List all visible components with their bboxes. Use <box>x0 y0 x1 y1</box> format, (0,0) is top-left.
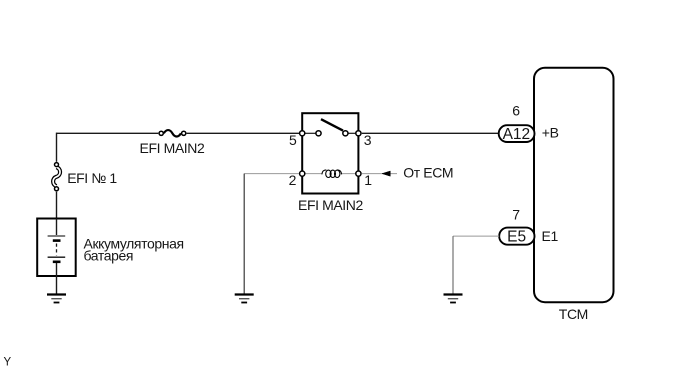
svg-text:TCM: TCM <box>559 306 588 322</box>
svg-text:EFI № 1: EFI № 1 <box>67 170 117 186</box>
svg-text:2: 2 <box>289 172 297 188</box>
svg-text:EFI MAIN2: EFI MAIN2 <box>140 140 205 156</box>
relay pin 3 circle <box>356 131 361 136</box>
relay pin 2 circle <box>300 171 305 176</box>
relay switch wire pin5 to inner contact <box>302 132 316 134</box>
relay switch inner contact circle left <box>316 131 321 136</box>
battery cell 2 long plate <box>48 256 66 258</box>
relay box EFI MAIN2 <box>302 113 358 193</box>
wire pin2 ground vertical <box>243 174 245 294</box>
wire E5 ground vertical <box>452 236 454 293</box>
fuse EFI MAIN2 wavy element <box>164 130 181 136</box>
wire fuse EFI MAIN2 to relay pin 5 <box>187 132 300 134</box>
svg-text:1: 1 <box>364 172 372 188</box>
svg-text:батарея: батарея <box>84 248 134 264</box>
svg-text:E1: E1 <box>542 228 559 244</box>
fuse EFI MAIN2 right terminal circle <box>182 131 186 135</box>
battery internal wire top <box>56 219 58 236</box>
relay pin 1 circle <box>356 171 361 176</box>
relay switch inner contact circle right <box>343 131 348 136</box>
battery box <box>37 219 75 277</box>
svg-text:E5: E5 <box>507 229 526 246</box>
svg-text:6: 6 <box>512 103 520 119</box>
wire pin2 to ground (horizontal) <box>244 173 299 175</box>
relay switch wire inner contact to pin3 <box>348 132 358 134</box>
svg-text:7: 7 <box>512 206 520 222</box>
connector E5 stadium <box>499 228 534 245</box>
fusible link EFI № 1 top terminal circle <box>55 163 59 167</box>
svg-text:Y: Y <box>4 357 12 369</box>
fuse EFI MAIN2 left terminal circle <box>159 131 163 135</box>
wire top corner down to fusible link EFI № 1 <box>56 133 58 162</box>
relay pin 5 circle <box>300 131 305 136</box>
battery internal wire bottom / wire to ground <box>56 263 58 294</box>
svg-text:3: 3 <box>364 132 372 148</box>
arrow head От ECM <box>382 171 390 176</box>
relay switch blade <box>321 119 343 130</box>
svg-text:+B: +B <box>542 125 559 141</box>
connector A12 stadium <box>499 125 535 142</box>
battery dashed connector <box>56 244 58 256</box>
svg-text:A12: A12 <box>503 126 531 143</box>
svg-text:EFI MAIN2: EFI MAIN2 <box>298 197 363 213</box>
wire fusible link to battery box <box>56 192 58 219</box>
wire pin3 to A12 <box>362 132 499 134</box>
wire pin1 to От ECM arrow <box>362 173 397 175</box>
wire (thin) coil row inside relay left <box>302 173 322 175</box>
fusible link EFI № 1 bottom terminal circle <box>55 187 59 191</box>
wire (thin) coil row inside relay right <box>341 173 358 175</box>
ground (E5) <box>444 295 463 303</box>
wire E5 to ground horizontal <box>453 235 499 237</box>
ground (battery) <box>47 295 66 303</box>
ground (relay pin2) <box>235 295 254 303</box>
svg-text:5: 5 <box>289 132 297 148</box>
battery cell 2 short plate <box>53 260 61 263</box>
battery cell 1 short plate <box>53 239 61 242</box>
fusible link EFI № 1 wavy ribbon <box>53 167 60 186</box>
wire battery to fuse EFI MAIN2 (left segment of top wire) <box>57 132 159 134</box>
relay coil <box>322 170 342 178</box>
battery cell 1 long plate <box>48 235 66 237</box>
svg-text:От ECM: От ECM <box>403 165 453 181</box>
TCM box <box>534 68 614 303</box>
